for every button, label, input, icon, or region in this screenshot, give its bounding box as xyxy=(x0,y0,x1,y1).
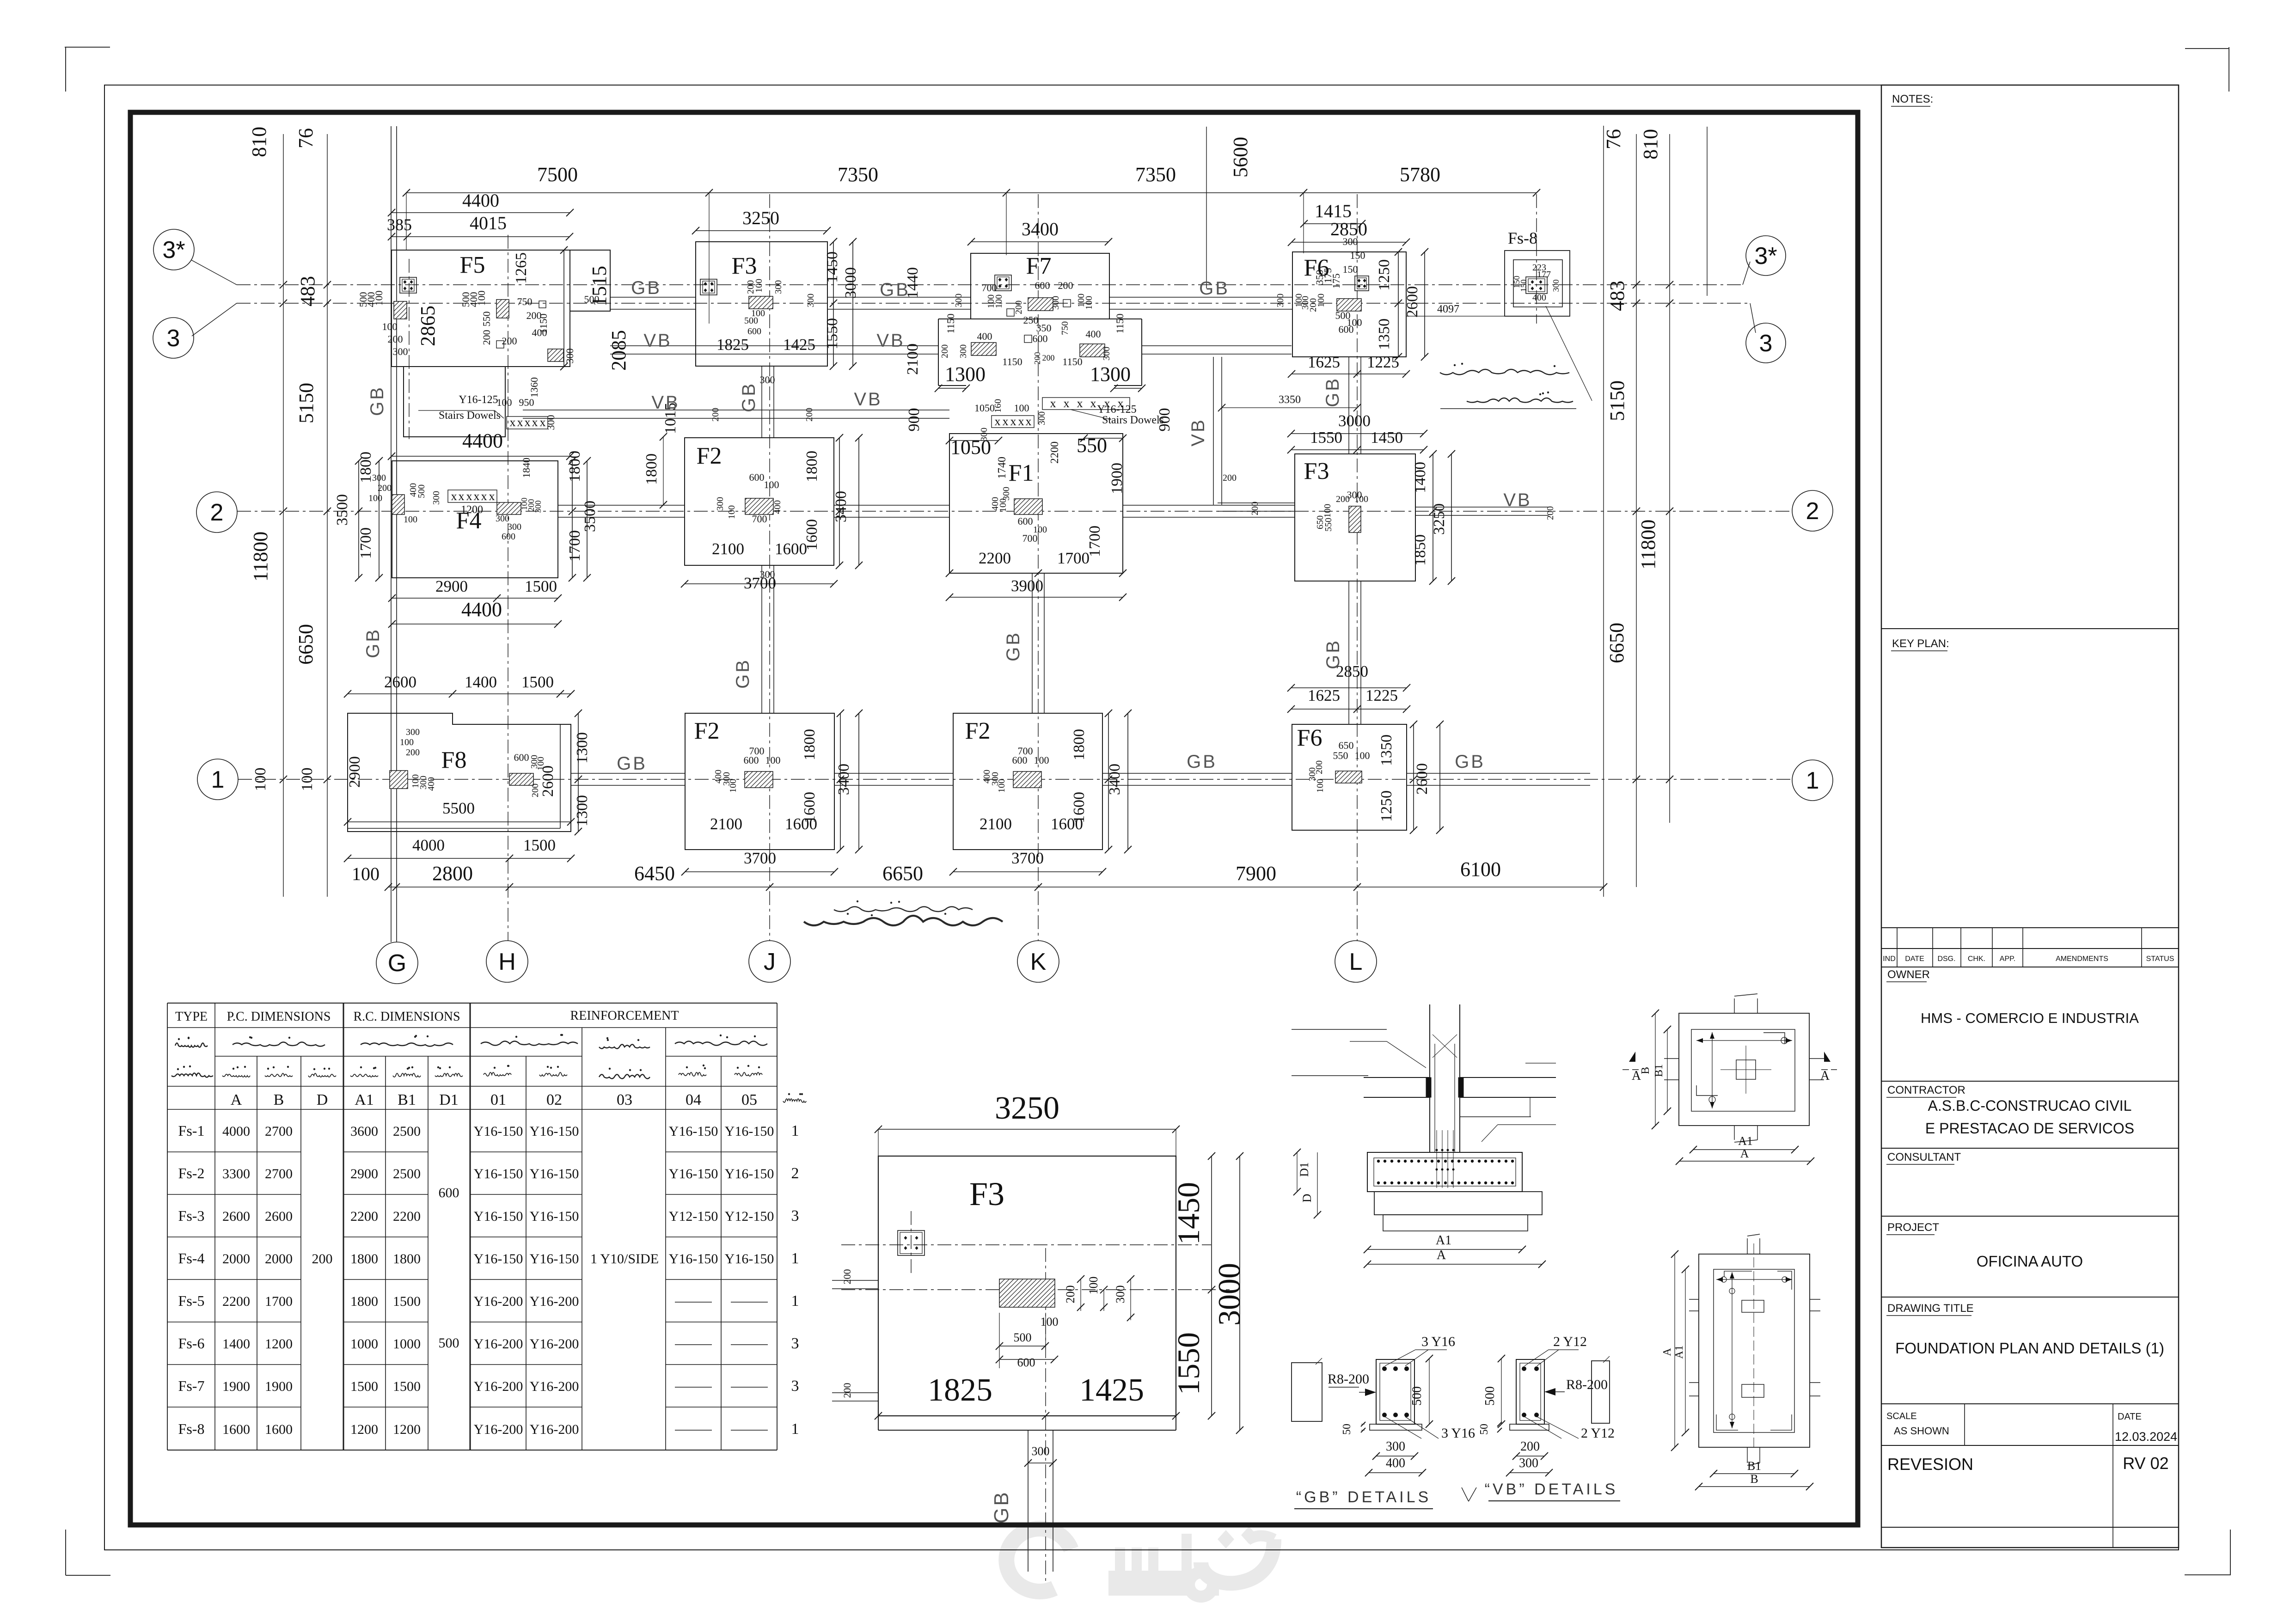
svg-text:B1: B1 xyxy=(1747,1459,1761,1473)
svg-text:GB: GB xyxy=(363,628,383,658)
svg-text:J: J xyxy=(764,949,776,975)
top dimension chain 7500 7350 7350 5780 xyxy=(406,192,1537,193)
GB section side block xyxy=(1292,1363,1322,1421)
svg-text:05: 05 xyxy=(741,1091,757,1108)
right dimension verticals xyxy=(1603,126,1604,897)
svg-text:2600: 2600 xyxy=(384,673,416,691)
svg-text:“VB” DETAILS: “VB” DETAILS xyxy=(1485,1481,1618,1498)
svg-text:Y16-150: Y16-150 xyxy=(530,1209,579,1224)
svg-text:300: 300 xyxy=(393,346,408,357)
dimension 3250 top xyxy=(696,230,827,231)
GB beams on grid 3 xyxy=(610,297,696,298)
F3 detail 3250 xyxy=(878,1129,1176,1130)
svg-text:1625: 1625 xyxy=(1308,353,1340,371)
svg-text:K: K xyxy=(1030,949,1047,975)
svg-text:2900: 2900 xyxy=(435,577,468,595)
svg-text:100: 100 xyxy=(404,514,417,525)
dim 4097 xyxy=(1406,316,1537,317)
svg-text:7900: 7900 xyxy=(1236,862,1276,885)
svg-text:1800: 1800 xyxy=(643,453,660,485)
svg-text:Y16-200: Y16-200 xyxy=(474,1294,523,1309)
svg-text:1800: 1800 xyxy=(393,1251,421,1267)
svg-text:1200: 1200 xyxy=(265,1336,293,1352)
svg-text:100: 100 xyxy=(497,397,512,408)
svg-text:FOUNDATION PLAN AND DETAILS (1: FOUNDATION PLAN AND DETAILS (1) xyxy=(1895,1340,2164,1357)
svg-text:400: 400 xyxy=(1086,328,1101,340)
sketch B-B inner measure lines xyxy=(1732,1272,1733,1428)
grid line 3* xyxy=(237,284,1743,285)
svg-text:3500: 3500 xyxy=(334,494,351,526)
foundation F7 outline xyxy=(971,253,1109,319)
svg-text:2100: 2100 xyxy=(904,343,921,375)
svg-text:400: 400 xyxy=(426,777,436,791)
svg-text:3250: 3250 xyxy=(995,1090,1059,1126)
svg-text:02: 02 xyxy=(546,1091,562,1108)
svg-text:600: 600 xyxy=(1035,280,1050,291)
svg-text:OWNER: OWNER xyxy=(1887,968,1930,981)
svg-text:GB: GB xyxy=(1323,639,1343,669)
svg-text:4015: 4015 xyxy=(470,213,507,233)
svg-text:300: 300 xyxy=(760,569,775,580)
svg-text:1825: 1825 xyxy=(716,336,749,354)
V mark xyxy=(1462,1487,1469,1501)
svg-text:2600: 2600 xyxy=(265,1209,293,1224)
svg-text:300: 300 xyxy=(431,491,441,505)
svg-text:1800: 1800 xyxy=(1071,729,1088,760)
steel column at G/3* xyxy=(400,277,416,293)
svg-text:SCALE: SCALE xyxy=(1886,1411,1917,1421)
dimension 5600 vertical xyxy=(1206,127,1207,288)
svg-text:4400: 4400 xyxy=(461,598,502,621)
svg-text:GB: GB xyxy=(1187,752,1217,772)
top chain extension lines xyxy=(406,193,407,250)
svg-text:A1: A1 xyxy=(1738,1134,1753,1148)
svg-text:Stairs Dowels: Stairs Dowels xyxy=(1102,414,1164,426)
grid bubble 3 right xyxy=(1746,323,1786,363)
dim 3350 xyxy=(1222,407,1357,408)
svg-text:300: 300 xyxy=(1343,236,1358,247)
left dimension line 76-6650 xyxy=(327,134,328,897)
svg-text:DATE: DATE xyxy=(1905,955,1924,963)
svg-text:200: 200 xyxy=(481,330,492,345)
svg-text:1000: 1000 xyxy=(350,1336,378,1352)
svg-text:F6: F6 xyxy=(1297,725,1322,751)
svg-text:100: 100 xyxy=(476,291,487,306)
svg-text:200: 200 xyxy=(1033,352,1042,365)
svg-text:Fs-5: Fs-5 xyxy=(178,1292,205,1309)
svg-text:1150: 1150 xyxy=(538,313,549,333)
svg-text:550: 550 xyxy=(1333,750,1348,761)
VB beam mid row xyxy=(523,410,949,410)
svg-text:810: 810 xyxy=(1639,129,1662,159)
arabic note line1 xyxy=(1440,369,1569,375)
grid line J xyxy=(769,194,770,941)
svg-text:1200: 1200 xyxy=(350,1422,378,1437)
svg-text:11800: 11800 xyxy=(1637,520,1659,569)
svg-text:2200: 2200 xyxy=(393,1209,421,1224)
svg-text:200: 200 xyxy=(710,408,721,422)
svg-text:Fs-6: Fs-6 xyxy=(178,1335,205,1352)
F7 1300 dims xyxy=(938,388,966,389)
svg-text:x: x xyxy=(517,416,523,429)
section A1 A dims xyxy=(1367,1249,1522,1250)
section footing PC xyxy=(1374,1192,1542,1215)
svg-text:1500: 1500 xyxy=(393,1379,421,1394)
svg-text:1850: 1850 xyxy=(1412,534,1429,566)
dims above F8 xyxy=(348,693,571,694)
svg-text:01: 01 xyxy=(490,1091,506,1108)
svg-text:6650: 6650 xyxy=(882,862,923,885)
svg-text:1500: 1500 xyxy=(393,1294,421,1309)
svg-text:177: 177 xyxy=(1537,269,1551,280)
svg-text:200: 200 xyxy=(1058,280,1073,291)
sketch A-A inner measure lines xyxy=(1712,1032,1713,1108)
svg-text:x: x xyxy=(451,490,457,503)
svg-text:L: L xyxy=(1349,949,1363,975)
svg-text:100: 100 xyxy=(997,779,1007,793)
svg-text:4097: 4097 xyxy=(1437,303,1459,315)
svg-text:50: 50 xyxy=(1478,1424,1490,1435)
svg-text:x: x xyxy=(474,490,480,503)
watermark khamsat logo xyxy=(1006,1526,1274,1599)
svg-text:900: 900 xyxy=(906,408,923,432)
svg-text:100: 100 xyxy=(728,779,738,793)
grid bubble L xyxy=(1335,941,1377,982)
grid bubble J xyxy=(749,941,790,982)
svg-text:100: 100 xyxy=(727,505,737,519)
svg-text:TYPE: TYPE xyxy=(175,1010,208,1024)
svg-text:GB: GB xyxy=(880,280,910,300)
grid bubble 3* left xyxy=(153,229,194,270)
F3 detail centerlines xyxy=(841,1244,1211,1245)
foundation F2 row1 K xyxy=(953,713,1102,850)
svg-text:A: A xyxy=(1661,1348,1673,1356)
svg-text:300: 300 xyxy=(508,522,521,532)
grid bubble K xyxy=(1017,941,1059,982)
table arabic headers xyxy=(175,1043,208,1047)
sketch A-A left dims xyxy=(1655,1013,1656,1126)
svg-text:6650: 6650 xyxy=(294,624,317,665)
svg-text:100: 100 xyxy=(1014,402,1029,414)
svg-text:100: 100 xyxy=(252,768,269,791)
VB vertical near L xyxy=(1213,357,1214,505)
dowel strip F5 xyxy=(507,416,548,429)
foundation F4 outline xyxy=(392,461,558,578)
svg-text:1550: 1550 xyxy=(1171,1332,1206,1395)
column hatch F5 mid xyxy=(496,300,509,318)
svg-text:x: x xyxy=(532,416,538,429)
svg-text:300: 300 xyxy=(1114,1285,1127,1304)
svg-text:1500: 1500 xyxy=(521,673,554,691)
svg-text:2800: 2800 xyxy=(432,862,473,885)
svg-text:KEY PLAN:: KEY PLAN: xyxy=(1892,637,1949,650)
svg-text:600: 600 xyxy=(439,1185,459,1200)
section leaders xyxy=(1387,1041,1426,1068)
svg-text:300: 300 xyxy=(715,497,725,511)
svg-text:300: 300 xyxy=(806,294,816,307)
svg-text:200: 200 xyxy=(530,783,540,797)
foundation F3 row2 L xyxy=(1295,454,1415,581)
foundation F5 outline xyxy=(392,250,570,367)
svg-text:150: 150 xyxy=(1350,250,1365,261)
column hatch F5 low xyxy=(548,349,563,361)
svg-text:1400: 1400 xyxy=(1412,462,1429,493)
svg-text:VB: VB xyxy=(643,331,672,351)
svg-text:Y16-150: Y16-150 xyxy=(530,1124,579,1139)
svg-text:2000: 2000 xyxy=(222,1251,250,1267)
svg-text:03: 03 xyxy=(617,1091,632,1108)
svg-text:7500: 7500 xyxy=(537,163,578,186)
arabic note line2 xyxy=(1467,398,1573,403)
svg-text:12.03.2024: 12.03.2024 xyxy=(2115,1430,2177,1444)
svg-text:300: 300 xyxy=(954,294,964,307)
svg-text:1: 1 xyxy=(791,1420,799,1438)
svg-text:100: 100 xyxy=(1355,750,1370,761)
svg-text:1825: 1825 xyxy=(928,1372,992,1408)
svg-text:Fs-3: Fs-3 xyxy=(178,1207,205,1224)
svg-text:3: 3 xyxy=(791,1377,799,1395)
svg-text:6450: 6450 xyxy=(634,862,675,885)
svg-text:100: 100 xyxy=(994,294,1004,308)
grid line 1 xyxy=(238,779,1792,780)
svg-text:1: 1 xyxy=(1806,767,1819,794)
svg-text:483: 483 xyxy=(1606,281,1629,311)
svg-text:700: 700 xyxy=(982,282,997,294)
svg-text:Y16-200: Y16-200 xyxy=(530,1379,579,1394)
grid line 2 xyxy=(237,511,1792,512)
svg-text:200: 200 xyxy=(1064,1285,1077,1304)
svg-text:Y16-150: Y16-150 xyxy=(474,1251,523,1267)
svg-text:2: 2 xyxy=(1806,498,1819,525)
svg-text:IND: IND xyxy=(1883,955,1896,963)
svg-text:x: x xyxy=(466,490,472,503)
svg-text:x: x xyxy=(1090,397,1096,410)
foundation F6 top xyxy=(1292,252,1406,357)
svg-text:x: x xyxy=(510,416,516,429)
svg-text:100: 100 xyxy=(1084,296,1094,310)
dimension 1625 1225 top xyxy=(1292,373,1406,374)
svg-text:4000: 4000 xyxy=(222,1124,250,1139)
svg-text:810: 810 xyxy=(248,127,270,157)
svg-text:Y16-150: Y16-150 xyxy=(530,1166,579,1181)
dimension 3400 top xyxy=(971,241,1108,242)
svg-text:100: 100 xyxy=(352,863,380,884)
svg-text:Y12-150: Y12-150 xyxy=(669,1209,718,1224)
grid bubble 2 right xyxy=(1792,490,1833,531)
grid bubble 1 left xyxy=(197,759,238,800)
svg-text:200: 200 xyxy=(1336,494,1350,504)
dims 2900 1500 4400 below F4 xyxy=(392,598,558,599)
bottom dimension chain 100 2800 6450 6650 7900 6100 xyxy=(388,887,1604,888)
dim 3700 under F2J xyxy=(685,583,834,584)
svg-text:2865: 2865 xyxy=(416,306,439,346)
svg-text:Y16-150: Y16-150 xyxy=(474,1124,523,1139)
F3 detail GB stub xyxy=(1028,1430,1029,1572)
svg-text:175: 175 xyxy=(1330,274,1342,289)
svg-text:VB: VB xyxy=(854,389,882,410)
svg-text:D: D xyxy=(317,1091,328,1108)
dimension 1415 xyxy=(1304,223,1362,224)
dimension 4400 under F5 xyxy=(392,456,570,457)
svg-text:A1: A1 xyxy=(355,1091,374,1108)
svg-text:Y16-150: Y16-150 xyxy=(725,1124,774,1139)
svg-text:1600: 1600 xyxy=(265,1422,293,1437)
svg-text:3400: 3400 xyxy=(835,764,852,795)
svg-text:1900: 1900 xyxy=(222,1379,250,1394)
svg-text:E PRESTACAO DE SERVICOS: E PRESTACAO DE SERVICOS xyxy=(1925,1120,2134,1137)
svg-text:Y16-200: Y16-200 xyxy=(530,1422,579,1437)
svg-text:500: 500 xyxy=(416,484,427,498)
svg-text:VB: VB xyxy=(876,331,905,351)
svg-text:550: 550 xyxy=(1323,518,1334,532)
svg-text:Fs-8: Fs-8 xyxy=(178,1420,205,1437)
svg-text:1625: 1625 xyxy=(1308,686,1340,704)
svg-text:CONTRACTOR: CONTRACTOR xyxy=(1887,1084,1965,1096)
svg-text:F2: F2 xyxy=(694,718,720,744)
svg-text:F2: F2 xyxy=(697,443,722,469)
svg-text:4000: 4000 xyxy=(412,836,445,854)
svg-text:100: 100 xyxy=(400,737,414,747)
sketch B-B stubs xyxy=(1747,1238,1748,1254)
svg-text:Y16-150: Y16-150 xyxy=(474,1166,523,1181)
svg-text:A1: A1 xyxy=(1436,1233,1451,1248)
svg-text:1425: 1425 xyxy=(783,336,815,354)
svg-text:Y16-200: Y16-200 xyxy=(474,1336,523,1352)
F3 detail steel column xyxy=(898,1230,925,1255)
svg-text:400: 400 xyxy=(772,500,783,514)
svg-text:DSG.: DSG. xyxy=(1937,955,1955,963)
svg-text:900: 900 xyxy=(1156,408,1173,432)
svg-text:483: 483 xyxy=(296,276,319,306)
table data row lines xyxy=(167,1151,301,1152)
svg-text:F1: F1 xyxy=(1009,460,1034,486)
foundation F1 outline xyxy=(949,434,1123,573)
svg-text:F3: F3 xyxy=(1304,458,1329,484)
sketch A-A bottom dims xyxy=(1693,1149,1795,1150)
svg-text:1: 1 xyxy=(211,766,225,793)
svg-text:100: 100 xyxy=(1087,1277,1100,1295)
svg-text:5150: 5150 xyxy=(1606,380,1629,421)
svg-text:200: 200 xyxy=(804,408,814,422)
svg-text:3700: 3700 xyxy=(744,849,776,867)
svg-text:x: x xyxy=(1064,397,1070,410)
svg-text:GB: GB xyxy=(990,1490,1013,1524)
dims 3000 1550 1450 above F3L xyxy=(1291,433,1424,434)
grid line L xyxy=(1357,194,1358,941)
VB section side block xyxy=(1592,1361,1610,1423)
svg-text:“GB” DETAILS: “GB” DETAILS xyxy=(1296,1488,1431,1506)
svg-text:3400: 3400 xyxy=(1022,219,1059,239)
section column xyxy=(1429,1004,1430,1152)
svg-text:REINFORCEMENT: REINFORCEMENT xyxy=(570,1009,679,1023)
svg-text:1600: 1600 xyxy=(775,540,807,558)
svg-text:200: 200 xyxy=(388,333,403,345)
svg-text:2600: 2600 xyxy=(1404,286,1421,318)
svg-text:1800: 1800 xyxy=(803,451,820,482)
svg-text:x: x xyxy=(1018,415,1024,428)
svg-text:1000: 1000 xyxy=(393,1336,421,1352)
svg-text:1400: 1400 xyxy=(465,673,497,691)
svg-text:600: 600 xyxy=(514,752,529,763)
svg-text:1515: 1515 xyxy=(588,266,611,306)
svg-text:2600: 2600 xyxy=(222,1209,250,1224)
svg-text:2900: 2900 xyxy=(346,756,363,788)
svg-text:CONSULTANT: CONSULTANT xyxy=(1887,1151,1961,1163)
svg-text:1 Y10/SIDE: 1 Y10/SIDE xyxy=(590,1251,659,1267)
grid bubble H xyxy=(486,941,528,982)
svg-text:3400: 3400 xyxy=(833,491,850,522)
svg-text:A: A xyxy=(1740,1147,1749,1160)
svg-text:1360: 1360 xyxy=(528,377,540,398)
svg-text:2100: 2100 xyxy=(712,540,744,558)
sketch A-A section flags xyxy=(1629,1052,1635,1062)
svg-text:600: 600 xyxy=(749,471,765,483)
svg-text:500: 500 xyxy=(1014,1331,1032,1344)
svg-text:x: x xyxy=(1077,397,1083,410)
svg-text:300: 300 xyxy=(1037,411,1047,425)
svg-text:950: 950 xyxy=(519,397,534,408)
F3 detail left beam stubs xyxy=(832,1280,878,1281)
svg-text:Fs-1: Fs-1 xyxy=(178,1122,205,1139)
svg-text:1740: 1740 xyxy=(996,457,1008,479)
svg-text:200: 200 xyxy=(1520,1439,1540,1454)
svg-text:B1: B1 xyxy=(1653,1064,1665,1077)
svg-text:A: A xyxy=(231,1091,242,1108)
svg-text:D1: D1 xyxy=(439,1091,459,1108)
svg-text:VB: VB xyxy=(651,392,680,413)
svg-text:100: 100 xyxy=(1041,1315,1059,1328)
svg-text:Fs-7: Fs-7 xyxy=(178,1377,205,1394)
grid bubble 1 right xyxy=(1792,760,1833,801)
grid line 3 xyxy=(237,303,1750,304)
svg-text:300: 300 xyxy=(1001,487,1011,501)
sketch B-B inner rects xyxy=(1742,1300,1764,1312)
svg-text:Y16-200: Y16-200 xyxy=(530,1336,579,1352)
svg-text:x: x xyxy=(1010,415,1016,428)
svg-text:300: 300 xyxy=(564,349,576,364)
svg-text:2085: 2085 xyxy=(607,330,630,371)
foundation F6 row1 xyxy=(1292,724,1407,830)
grid line K xyxy=(1038,194,1039,941)
svg-text:RV 02: RV 02 xyxy=(2123,1454,2168,1473)
svg-text:7350: 7350 xyxy=(1135,163,1176,186)
svg-text:x: x xyxy=(525,416,531,429)
column hatch G-3 xyxy=(394,301,407,319)
svg-text:400: 400 xyxy=(1386,1456,1405,1470)
svg-text:200: 200 xyxy=(841,1269,853,1285)
svg-text:300: 300 xyxy=(545,415,557,430)
svg-text:F8: F8 xyxy=(441,747,467,773)
svg-text:P.C. DIMENSIONS: P.C. DIMENSIONS xyxy=(227,1010,331,1024)
svg-text:1450: 1450 xyxy=(1171,1182,1206,1245)
svg-text:1: 1 xyxy=(791,1250,799,1267)
svg-text:2600: 2600 xyxy=(1414,763,1431,795)
svg-text:300: 300 xyxy=(773,280,784,294)
svg-text:1700: 1700 xyxy=(566,530,583,562)
svg-text:4400: 4400 xyxy=(462,190,499,211)
svg-text:700: 700 xyxy=(752,513,767,525)
svg-text:300: 300 xyxy=(958,344,968,358)
table header horizontals xyxy=(167,1003,777,1004)
svg-text:400: 400 xyxy=(977,331,992,342)
svg-text:1250: 1250 xyxy=(1376,259,1393,291)
svg-text:1700: 1700 xyxy=(1057,549,1090,567)
svg-text:7350: 7350 xyxy=(838,163,878,186)
svg-text:AMENDMENTS: AMENDMENTS xyxy=(2056,955,2108,963)
svg-text:100: 100 xyxy=(368,493,382,503)
svg-text:1550: 1550 xyxy=(1310,428,1342,447)
svg-text:Y16-150: Y16-150 xyxy=(725,1251,774,1267)
